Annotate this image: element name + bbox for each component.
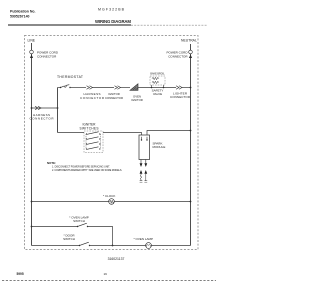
svg-text:MODULE: MODULE <box>153 145 166 149</box>
power cord connector (line side) <box>30 50 59 58</box>
junction node spark row at neutral <box>190 130 192 132</box>
harness connector (oven circuit) <box>80 86 105 100</box>
svg-text:LINE: LINE <box>28 39 36 43</box>
svg-text:1. DISCONNECT POWER BEFORE SER: 1. DISCONNECT POWER BEFORE SERVICING UNI… <box>52 165 110 168</box>
svg-text:SWITCH: SWITCH <box>73 219 85 223</box>
svg-text:CONNECTOR: CONNECTOR <box>170 95 191 99</box>
svg-text:CONNECTOR: CONNECTOR <box>168 54 188 58</box>
junction node lamp switch row at left rail <box>31 226 33 228</box>
note text block <box>47 161 122 172</box>
svg-text:Publication No.: Publication No. <box>10 10 36 14</box>
wire ignitor connector to oven ignitor <box>121 87 131 89</box>
oven lamp <box>134 237 154 248</box>
oven lamp switch <box>32 216 89 228</box>
wire join to oven lamp <box>90 245 146 247</box>
junction node clock row at left rail <box>31 201 33 203</box>
svg-text:NOTE:: NOTE: <box>47 161 56 165</box>
wire node riser x57 <box>57 88 59 133</box>
svg-text:CONNECTOR: CONNECTOR <box>30 117 55 121</box>
lighter connector <box>170 86 191 99</box>
svg-text:CONNECTOR: CONNECTOR <box>80 96 105 100</box>
wire spark module to neutral rail <box>147 131 191 136</box>
clock <box>103 194 115 205</box>
spark module U1 <box>139 135 165 160</box>
wire right rail neutral <box>190 44 192 246</box>
footer dashed rule <box>2 280 216 282</box>
svg-text:2. COMPONENTS MARKED WITH * AR: 2. COMPONENTS MARKED WITH * ARE USED ON … <box>52 169 122 172</box>
spark electrode tip labels <box>140 181 148 183</box>
spark electrode left <box>140 160 143 181</box>
wire harness feed row <box>32 107 58 109</box>
wire oven ignitor to safety valve <box>138 87 176 89</box>
junction node clock row at neutral <box>190 201 192 203</box>
harness connector (feed) <box>30 106 55 120</box>
wire thermostat to harness connector <box>70 87 86 89</box>
junction node at feed tee <box>57 107 59 109</box>
junction node at left rail feed <box>31 107 33 109</box>
wire clock to neutral rail <box>114 201 190 203</box>
power cord connector (neutral side) <box>167 50 193 58</box>
svg-text:IGNITOR: IGNITOR <box>131 98 143 102</box>
spark electrode right <box>144 160 147 181</box>
thermostat <box>57 75 83 88</box>
wire lighter connector to neutral rail <box>182 87 191 89</box>
wire left rail L1 <box>31 43 33 246</box>
svg-text:VALVE: VALVE <box>153 92 162 96</box>
igniter switches (dashed enclosure, 4 parallel switches) <box>80 122 104 152</box>
svg-text:NEUTRAL: NEUTRAL <box>181 39 197 43</box>
wire node riser to igniter switches <box>58 132 85 134</box>
svg-text:316021137: 316021137 <box>108 257 125 261</box>
svg-text:BAKE BROIL: BAKE BROIL <box>150 73 165 76</box>
svg-text:19: 19 <box>104 272 108 276</box>
ignitor connector <box>105 86 123 100</box>
svg-text:CONNECTOR: CONNECTOR <box>105 96 123 100</box>
wire clock row <box>32 201 109 203</box>
publication number text <box>10 10 36 19</box>
door switch <box>32 233 91 246</box>
wire lamp switch to join riser <box>88 227 113 246</box>
svg-text:THERMOSTAT: THERMOSTAT <box>57 75 83 79</box>
svg-text:CONNECTOR: CONNECTOR <box>37 54 57 58</box>
svg-text:* OVEN LAMP: * OVEN LAMP <box>134 237 154 241</box>
svg-text:5995267140: 5995267140 <box>10 15 30 19</box>
svg-text:WIRING DIAGRAM: WIRING DIAGRAM <box>95 19 131 24</box>
junction node switches join <box>112 245 114 247</box>
wire oven lamp to neutral rail <box>151 245 190 247</box>
safety valve (dual coil, dashed enclosure) <box>150 73 165 97</box>
svg-text:SWITCH: SWITCH <box>63 237 75 241</box>
wire igniter switches to spark module <box>103 133 142 136</box>
wire harness to ignitor connector <box>93 87 115 89</box>
diagram border frame <box>25 36 199 250</box>
junction node top row at neutral <box>190 87 192 89</box>
title rule <box>8 24 207 26</box>
svg-text:SWITCHES: SWITCHES <box>80 126 99 130</box>
oven ignitor <box>130 84 143 102</box>
svg-text:* CLOCK: * CLOCK <box>103 194 115 198</box>
svg-text:5995: 5995 <box>17 272 24 276</box>
